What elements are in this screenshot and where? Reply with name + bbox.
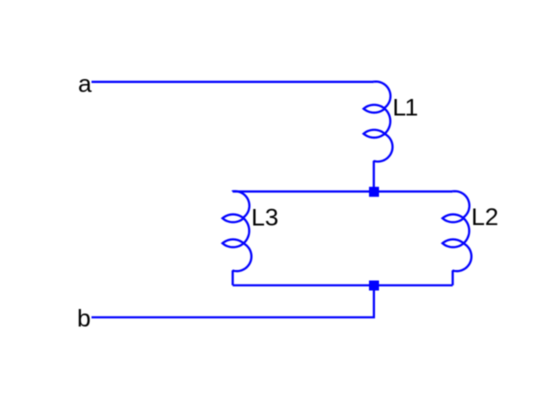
svg-text:b: b [77,306,91,333]
svg-text:a: a [78,71,92,98]
svg-text:L1: L1 [393,94,418,121]
svg-text:L3: L3 [251,204,278,231]
svg-text:L2: L2 [471,204,498,231]
